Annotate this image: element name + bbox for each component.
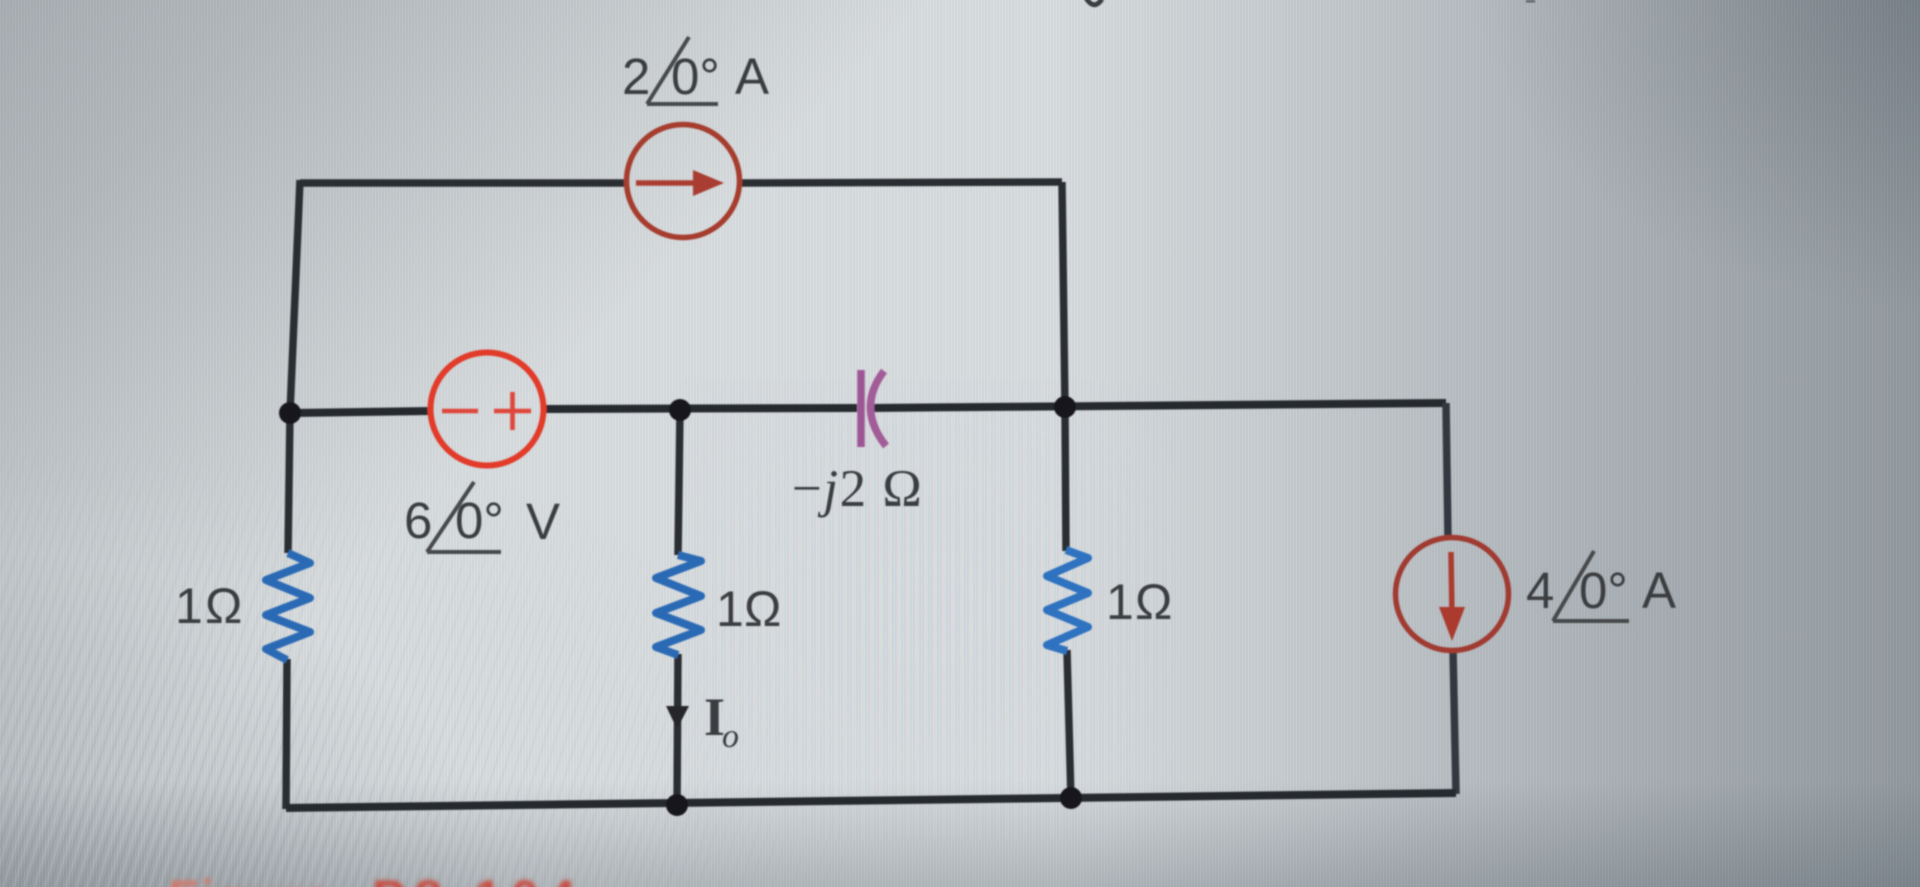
current source I2 arrow — [1439, 552, 1465, 641]
node D (bottom middle junction) — [666, 794, 688, 816]
svg-text:−j2 Ω: −j2 Ω — [792, 460, 923, 518]
wire top-left horizontal segment — [300, 179, 627, 187]
node C (right middle junction) — [1054, 396, 1076, 418]
wire right-middle vertical upper (node to R3) — [1065, 407, 1066, 551]
node B (middle junction) — [669, 399, 691, 421]
label 4/0 A value of I2 — [1526, 551, 1676, 621]
wire middle vertical lower (R2 to bottom node, carries Io) — [677, 654, 678, 808]
output current Io arrowhead — [666, 706, 689, 729]
svg-text:Ω: Ω — [1135, 574, 1172, 630]
wire middle horizontal node-to-source — [291, 411, 431, 413]
current source I1 arrow — [636, 170, 724, 196]
stray glyph fragment at top edge — [1086, 0, 1102, 5]
caption Figure P8.104 (clipped at bottom) — [168, 870, 584, 887]
wire middle horizontal capacitor-to-right-corner — [872, 403, 1446, 408]
wire middle vertical upper (node to R2) — [678, 411, 680, 555]
current source I1 2A circle — [627, 125, 740, 238]
svg-text:1: 1 — [1106, 574, 1134, 630]
svg-text:Ω: Ω — [205, 578, 242, 634]
svg-text:P8.104: P8.104 — [372, 870, 584, 887]
capacitor C -j2ohm right curved plate — [870, 371, 886, 446]
svg-text:Ω: Ω — [744, 581, 781, 637]
wire middle horizontal source-to-capacitor — [544, 408, 857, 409]
wire far-right vertical lower (source I2 to bottom corner) — [1453, 650, 1456, 794]
label 2/0 A value of I1 — [622, 37, 769, 105]
voltage source V1 minus sign — [442, 409, 478, 414]
wire left vertical upper — [288, 180, 300, 553]
svg-text:0°: 0° — [1579, 562, 1628, 619]
wire bottom horizontal — [286, 793, 1456, 808]
svg-text:6: 6 — [404, 492, 432, 549]
svg-text:A: A — [1642, 562, 1676, 619]
current source I2 4A circle — [1396, 538, 1509, 651]
svg-text:Figure: Figure — [168, 870, 333, 887]
wire right-upper vertical (top corner to middle node) — [1062, 182, 1065, 407]
node A (left middle junction) — [279, 402, 301, 424]
wire top-right horizontal segment — [740, 182, 1062, 183]
wire left vertical lower — [286, 659, 287, 809]
svg-text:2: 2 — [622, 48, 650, 105]
resistor R1 1ohm (left) — [266, 553, 310, 660]
svg-text:1: 1 — [175, 578, 203, 634]
svg-text:A: A — [735, 48, 769, 105]
label 6/0 V value of V1 — [404, 482, 560, 552]
svg-text:o: o — [722, 718, 739, 755]
resistor R2 1ohm (middle) — [656, 555, 701, 655]
stray mark top right — [1526, 0, 1535, 3]
resistor R3 1ohm (right) — [1047, 550, 1088, 651]
voltage source V1 plus sign — [494, 392, 531, 430]
voltage source V1 6V circle — [431, 353, 544, 466]
capacitor C -j2ohm left plate — [857, 370, 865, 447]
svg-text:V: V — [526, 493, 560, 550]
svg-text:1: 1 — [716, 581, 744, 637]
node E (bottom right junction) — [1060, 787, 1082, 809]
wire right-middle vertical lower (R3 to bottom node) — [1067, 650, 1071, 800]
wire far-right vertical upper (corner to source I2) — [1446, 403, 1448, 539]
svg-text:4: 4 — [1526, 562, 1554, 619]
